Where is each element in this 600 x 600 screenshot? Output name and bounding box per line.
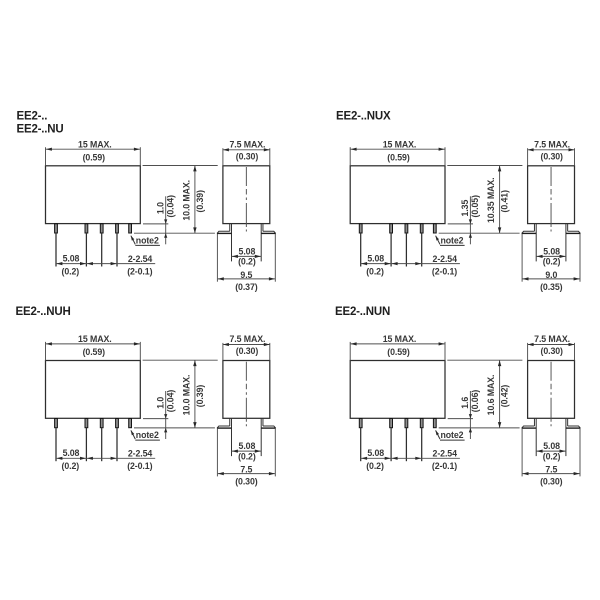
svg-text:9.0: 9.0 xyxy=(545,270,557,280)
svg-text:(0.05): (0.05) xyxy=(470,195,480,218)
svg-text:7.5: 7.5 xyxy=(545,465,557,475)
svg-text:EE2-..NUN: EE2-..NUN xyxy=(335,306,390,318)
svg-text:10.0 MAX.: 10.0 MAX. xyxy=(181,375,191,416)
svg-text:(0.06): (0.06) xyxy=(470,390,480,413)
svg-text:EE2-..NUX: EE2-..NUX xyxy=(336,110,391,122)
svg-text:(0.42): (0.42) xyxy=(500,385,510,408)
svg-text:EE2-..NU: EE2-..NU xyxy=(17,124,64,136)
svg-text:(0.04): (0.04) xyxy=(165,195,175,218)
svg-text:(0.35): (0.35) xyxy=(540,282,563,292)
svg-text:10.0 MAX.: 10.0 MAX. xyxy=(181,180,191,221)
svg-text:(0.39): (0.39) xyxy=(195,190,205,213)
svg-text:(0.30): (0.30) xyxy=(540,477,563,487)
svg-text:EE2-..: EE2-.. xyxy=(17,110,48,122)
svg-text:(0.04): (0.04) xyxy=(165,390,175,413)
svg-text:1.0: 1.0 xyxy=(155,397,165,409)
svg-text:(0.39): (0.39) xyxy=(195,385,205,408)
svg-text:1.0: 1.0 xyxy=(155,202,165,214)
svg-text:(0.30): (0.30) xyxy=(235,477,258,487)
svg-text:(0.37): (0.37) xyxy=(235,282,258,292)
svg-text:10.6 MAX.: 10.6 MAX. xyxy=(486,375,496,416)
svg-text:1.35: 1.35 xyxy=(460,200,470,217)
svg-text:EE2-..NUH: EE2-..NUH xyxy=(16,306,71,318)
svg-text:(0.41): (0.41) xyxy=(500,190,510,213)
svg-text:7.5: 7.5 xyxy=(240,465,252,475)
svg-text:10.35 MAX.: 10.35 MAX. xyxy=(486,178,496,223)
svg-text:9.5: 9.5 xyxy=(240,270,252,280)
svg-text:1.6: 1.6 xyxy=(460,397,470,409)
